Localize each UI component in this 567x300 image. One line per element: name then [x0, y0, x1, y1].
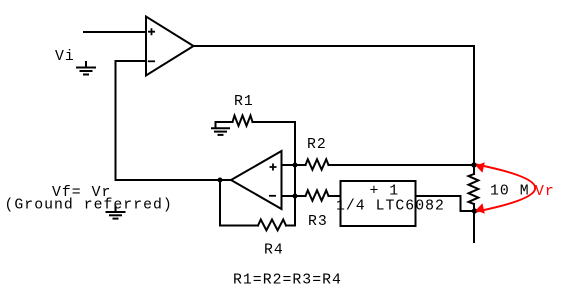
- svg-text:1/4 LTC6082: 1/4 LTC6082: [336, 199, 445, 215]
- svg-text:R1: R1: [234, 94, 254, 110]
- svg-text:R4: R4: [264, 243, 284, 259]
- svg-text:R3: R3: [308, 214, 328, 230]
- svg-text:(Ground referred): (Ground referred): [5, 198, 173, 214]
- svg-text:+ 1: + 1: [370, 184, 400, 200]
- svg-text:R2: R2: [307, 137, 327, 153]
- svg-text:Vr: Vr: [535, 184, 555, 200]
- svg-text:Vi: Vi: [55, 49, 75, 65]
- svg-text:R1=R2=R3=R4: R1=R2=R3=R4: [233, 273, 342, 289]
- svg-text:10 M: 10 M: [490, 184, 530, 200]
